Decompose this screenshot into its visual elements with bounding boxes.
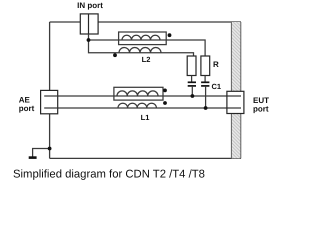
wire IN port to junction [88,34,90,40]
EUT wall hatched bar [231,22,240,158]
wire left frame [49,22,51,158]
phasing dot L1 bottom [163,101,167,105]
ground branch wire [33,149,50,157]
svg-text:Simplified diagram for CDN T2: Simplified diagram for CDN T2 /T4 /T8 [13,169,205,181]
wire resistor left to cap left [191,76,193,83]
phasing dot L2 top [168,33,172,37]
capacitor C1 left [188,82,196,86]
svg-text:AE: AE [19,95,31,104]
svg-text:L2: L2 [142,55,151,64]
IN port connector box [80,14,98,34]
svg-text:port: port [253,105,269,114]
svg-text:EUT: EUT [253,96,269,105]
ground symbol [29,156,37,159]
wire L1 upper line [44,95,241,97]
wire top frame [50,21,241,23]
wire L2 bottom branch [89,40,194,56]
inductor core L2 [119,32,167,45]
junction dot below IN port [87,38,91,42]
wire cap left to upper line [191,87,193,96]
svg-text:C1: C1 [212,82,222,91]
inductor L1 bottom winding [118,103,156,108]
inductor L1 top winding [117,91,158,96]
wire L1 lower line [44,107,241,109]
phasing dot L1 top [163,89,167,93]
junction dot cap right / lower line [204,106,208,110]
wire L2 top branch [89,40,206,56]
wire resistor right to cap right [204,76,206,83]
junction dot cap left / upper line [191,94,195,98]
svg-text:R: R [213,60,219,69]
wire cap right to lower line [205,87,207,108]
svg-text:port: port [19,104,35,113]
capacitor C1 right [201,82,209,86]
phasing dot L2 bottom [113,53,117,57]
EUT port connector box [227,91,244,113]
svg-text:L1: L1 [141,113,150,122]
inductor L2 top winding [122,35,160,40]
resistor R right [201,56,210,76]
inductor L2 bottom winding [119,48,161,53]
junction dot ground [48,147,52,151]
wire bottom frame [50,157,241,159]
svg-text:IN port: IN port [77,1,103,10]
resistor R left [187,56,196,76]
inductor core L1 [114,87,163,100]
AE port connector box [41,90,58,113]
